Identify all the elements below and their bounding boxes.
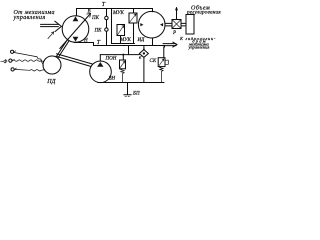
svg-text:ИД: ИД (137, 38, 146, 43)
svg-text:управления: управления (188, 45, 210, 50)
svg-text:В: В (88, 10, 91, 15)
svg-text:~Ф: ~Ф (1, 60, 8, 65)
svg-text:ВН: ВН (109, 77, 116, 82)
svg-text:Н: Н (83, 39, 88, 44)
svg-text:СК: СК (150, 59, 157, 64)
svg-text:МУК: МУК (119, 38, 132, 43)
svg-text:ПД: ПД (46, 79, 56, 85)
svg-text:ПК: ПК (94, 29, 103, 34)
svg-text:регулирования: регулирования (186, 9, 221, 15)
svg-text:БП: БП (132, 92, 140, 97)
svg-text:Р: Р (172, 31, 176, 36)
svg-text:управления: управления (13, 15, 46, 21)
svg-text:МУК: МУК (112, 11, 125, 16)
svg-text:ПК: ПК (91, 16, 100, 21)
svg-text:ПОН: ПОН (105, 57, 117, 62)
